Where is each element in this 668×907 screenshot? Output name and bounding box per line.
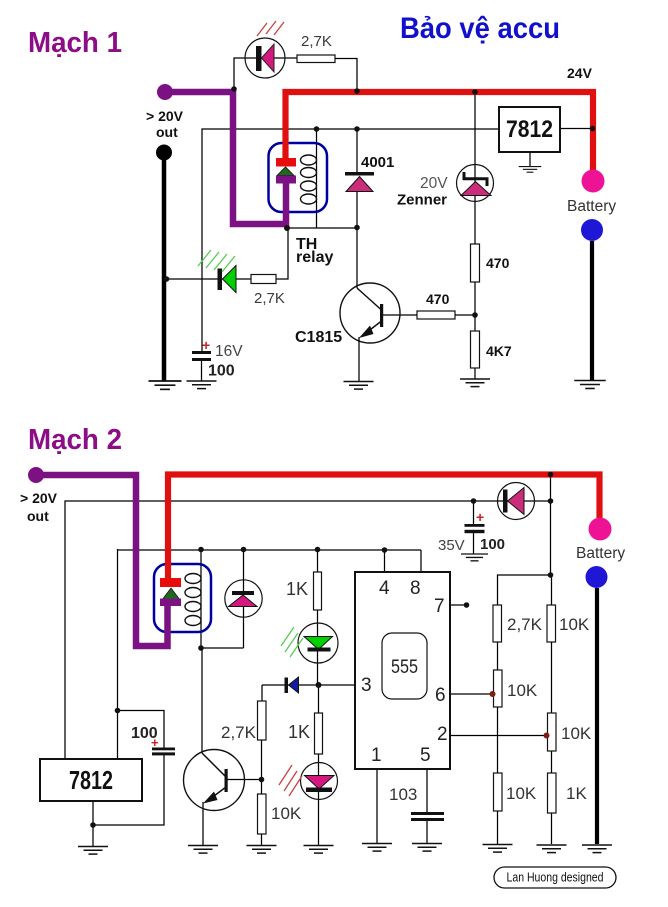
regulator U2 7812 <box>40 759 142 801</box>
capacitor C3 35V plates <box>465 524 485 527</box>
resistor R7 2,7K <box>258 701 267 740</box>
wire: 7812 U1 output to battery wire <box>560 128 592 130</box>
svg-text:Battery: Battery <box>576 545 625 562</box>
wire: C3 35V branch <box>473 501 475 554</box>
wire: down to Q2 collector <box>201 648 203 753</box>
diode D7 bar <box>503 490 508 513</box>
wire: contact-common net y=228 (relay output to coil bottom and 4001/collector) <box>287 227 357 229</box>
svg-text:100: 100 <box>480 536 505 553</box>
svg-text:7812: 7812 <box>69 765 113 795</box>
wire: 1K / green LED column x=317.5 <box>317 550 319 685</box>
svg-text:1: 1 <box>371 745 382 766</box>
wire: LED D5 column x=243.5 <box>243 550 245 648</box>
resistor 10K left mid <box>494 670 503 707</box>
wire: zener/divider column x=475 <box>474 92 476 244</box>
wire: divider right column x=551.5 <box>551 642 553 844</box>
wire: 555 pin4 and pin8 feeds <box>385 550 422 572</box>
wire: 1K mid / pink LED column x=319 <box>318 685 320 845</box>
diode D6 (blue) triangle <box>289 677 299 693</box>
transistor Q1 collector stroke <box>357 288 382 310</box>
wire: battery negative lead <box>590 241 594 380</box>
node: battery plus terminal (pink) <box>589 518 612 541</box>
wire: Q1 emitter to ground <box>358 337 360 381</box>
relay K2 contact (red) <box>160 578 181 587</box>
svg-text:Mạch 2: Mạch 2 <box>28 424 122 456</box>
resistor 1K mid <box>315 713 323 754</box>
wire: R1 right side drop to +24V red rail <box>335 59 357 91</box>
diode D3 4001 bar <box>345 172 374 176</box>
svg-text:2,7K: 2,7K <box>301 33 332 50</box>
svg-text:5: 5 <box>420 745 431 766</box>
svg-text:Bảo vệ accu: Bảo vệ accu <box>400 12 560 45</box>
transistor Q1 emitter stroke with arrow <box>362 321 382 336</box>
ground: R8 <box>247 846 277 854</box>
resistor 10K right mid <box>548 713 557 751</box>
diode D7 triangle <box>508 488 525 515</box>
capacitor C4 103 plates <box>411 812 444 815</box>
LED D1 light rays (red) <box>257 21 284 36</box>
LED D5 circle (at relay) <box>225 580 262 617</box>
svg-text:2,7K: 2,7K <box>221 723 257 742</box>
transistor Q1 C1815 circle <box>340 283 400 343</box>
wire: R2 right to relay contact junction <box>276 228 288 279</box>
svg-text:4: 4 <box>379 578 390 599</box>
node: pin6 tap (maroon) <box>490 691 496 697</box>
svg-text:3: 3 <box>361 675 372 696</box>
ground: divider right <box>537 845 567 853</box>
LED D2 (green) triangle <box>223 266 237 293</box>
transistor Q1 base bar <box>380 304 383 327</box>
node: battery-minus sense terminal (black) <box>156 145 172 161</box>
LED D8 bar <box>308 648 331 652</box>
ground: divider left <box>483 845 513 853</box>
relay K2 contact (purple) <box>160 599 181 607</box>
svg-text:7812: 7812 <box>506 116 553 143</box>
svg-text:20V: 20V <box>420 175 448 192</box>
wire: divider left column x=497.5 <box>497 642 499 844</box>
wire: 4001 diode branch x=357 <box>356 129 358 228</box>
svg-text:103: 103 <box>389 785 417 804</box>
wire: 555 pin6 to divider left column <box>450 693 492 695</box>
svg-text:+: + <box>151 735 159 750</box>
resistor R3 470 horizontal <box>417 311 455 319</box>
ground: Q2 emitter <box>188 846 218 854</box>
wire: 555 pin5 to C4 103 <box>426 769 428 843</box>
svg-text:out: out <box>156 124 178 140</box>
svg-text:Mạch 1: Mạch 1 <box>28 27 122 59</box>
wire: purple contact feed from >20V out <box>165 92 286 224</box>
relay K1 coil <box>301 155 317 204</box>
ground: 555 pin1 <box>362 844 392 852</box>
svg-text:7: 7 <box>434 596 445 617</box>
IC U3 inner label box <box>382 633 427 699</box>
node: battery plus terminal (pink) <box>582 170 605 193</box>
svg-text:1K: 1K <box>288 722 310 742</box>
relay K1 contact (red) <box>276 158 296 167</box>
node: battery minus terminal (blue) <box>581 219 603 241</box>
wire: purple contact feed from >20V out <box>40 475 168 646</box>
relay K1 case <box>269 143 328 212</box>
svg-text:35V: 35V <box>438 537 465 554</box>
svg-text:C1815: C1815 <box>295 329 342 346</box>
resistor R5 4K7 <box>471 331 480 368</box>
LED D5 triangle <box>229 595 258 607</box>
junction dots circuit1 <box>164 86 596 318</box>
svg-text:2,7K: 2,7K <box>254 290 285 307</box>
LED D2 (green) cathode bar <box>218 269 223 291</box>
LED D1 triangle <box>262 44 275 72</box>
ground: battery negative <box>574 381 606 389</box>
wire: Q2 base row <box>227 779 262 781</box>
wire: coil bottom to LED bottom y=648 <box>201 647 244 649</box>
wire: battery tap x=550.5 from red rail to divider rail <box>550 474 552 575</box>
resistor 2,7K divider <box>493 605 502 642</box>
wire: LED D1 anode row y=58 and drop to purple node <box>234 58 297 89</box>
ground: U1 7812 <box>519 167 542 173</box>
svg-text:10K: 10K <box>559 615 590 634</box>
transistor Q2 collector stroke <box>202 753 226 777</box>
zener DZ triangle <box>461 182 491 196</box>
svg-text:1K: 1K <box>286 579 308 599</box>
wire: C1 to ground <box>201 361 203 381</box>
regulator U1 7812 <box>499 107 560 152</box>
ground: U2 7812 <box>78 847 108 855</box>
ground: >20V out lead <box>149 381 182 389</box>
wire: +24V thin rail y=129 from cap corner to 7812 input <box>202 129 499 351</box>
node: >20V out terminal (purple) <box>157 84 173 100</box>
resistor 1K right bottom <box>548 773 557 813</box>
capacitor C2 plates <box>152 748 175 751</box>
ground: battery negative <box>582 845 612 853</box>
svg-text:24V: 24V <box>567 65 593 81</box>
LED D2 light rays (green) <box>198 250 235 272</box>
svg-text:2,7K: 2,7K <box>507 615 543 634</box>
LED D9 pink circle <box>301 763 338 800</box>
LED D5 bar <box>232 591 254 595</box>
node: >20V out terminal (purple) <box>28 467 44 483</box>
relay K2 coil <box>185 574 201 626</box>
wire: relay K1 coil line x=316.5 <box>316 129 318 228</box>
node: battery minus terminal (blue) <box>586 566 608 588</box>
wire: base column R7-R8 <box>261 740 263 845</box>
LED D1 cathode bar <box>256 46 262 71</box>
node: pin2 tap (maroon) <box>544 733 550 739</box>
wire: battery feed to 7812 input (frame via diode) y=501 <box>65 501 551 759</box>
ground: C4 103 <box>412 844 442 852</box>
relay K2 contact arrow (green) <box>162 588 180 600</box>
resistor 1K top <box>314 572 322 610</box>
svg-text:> 20V: > 20V <box>146 108 184 124</box>
svg-text:10K: 10K <box>507 681 538 700</box>
LED D8 triangle <box>304 637 333 650</box>
wire: collector drop to Q1 <box>356 228 358 289</box>
wire: divider 470-4K7 column <box>474 282 476 379</box>
wire: 555 pin2 to divider right column <box>450 735 547 737</box>
svg-text:10K: 10K <box>506 784 537 803</box>
svg-text:4K7: 4K7 <box>486 343 512 359</box>
resistor 10K left bottom <box>494 773 503 811</box>
transistor Q2 emitter stroke with arrow <box>206 787 226 802</box>
svg-text:> 20V: > 20V <box>20 490 58 506</box>
wire: 7812 U2 output column x=117.5 <box>117 549 119 759</box>
ground: C3 <box>461 554 488 561</box>
transistor Q2 base bar <box>225 769 228 792</box>
wire: >20V out lead (thick black) <box>162 158 167 381</box>
svg-text:Lan Huong designed: Lan Huong designed <box>507 871 604 885</box>
svg-text:4001: 4001 <box>361 154 394 171</box>
LED D9 triangle <box>305 776 335 790</box>
ground: LED D9 <box>304 846 334 854</box>
svg-text:10K: 10K <box>271 804 302 823</box>
svg-text:out: out <box>27 508 49 524</box>
wire: 555 pin7 stub <box>450 604 466 606</box>
svg-text:+: + <box>202 337 210 353</box>
LED D1 (red indicator) circle <box>245 38 285 78</box>
LED D9 light rays (red) <box>279 765 302 796</box>
ground: 4K7 <box>460 379 490 387</box>
relay K1 contact (purple) <box>276 176 296 184</box>
wire: 555 pin3 row y=685 <box>262 684 355 686</box>
LED D8 light rays (green) <box>281 627 303 657</box>
wire: divider top rail <box>498 575 552 605</box>
svg-text:555: 555 <box>391 657 418 678</box>
svg-text:470: 470 <box>486 255 510 271</box>
LED D8 green circle <box>298 623 338 663</box>
resistor R8 10K <box>258 794 267 834</box>
wire: +24V thick red wire to battery <box>168 475 600 580</box>
zener DZ bar with hooks <box>464 172 487 186</box>
svg-text:16V: 16V <box>215 343 243 360</box>
svg-text:100: 100 <box>208 363 235 380</box>
relay K1 contact arrow (green) <box>277 167 294 176</box>
zener DZ 20V circle <box>457 165 494 202</box>
resistor R1 2,7K <box>297 55 335 63</box>
transistor Q2 circle <box>184 750 245 811</box>
wire: relay K2 coil column x=201 <box>200 550 202 648</box>
svg-text:470: 470 <box>426 291 450 307</box>
capacitor C1 plates <box>192 351 211 354</box>
signature pill <box>494 867 616 888</box>
svg-text:10K: 10K <box>561 724 592 743</box>
svg-text:Zenner: Zenner <box>397 192 447 209</box>
svg-text:+: + <box>476 509 484 525</box>
resistor R4 470 vertical <box>471 244 480 282</box>
relay K2 case <box>154 564 211 632</box>
svg-text:2: 2 <box>437 724 448 745</box>
wire: +12V rail y=550 <box>118 549 422 551</box>
diode D3 4001 triangle <box>346 177 373 192</box>
wire: LED D2 row y=279 from battery line to R2 <box>164 278 251 280</box>
wire: Q1 base to R3 to divider node <box>383 314 475 316</box>
wire: branch to C2 100uF <box>118 711 165 748</box>
wire: battery negative lead <box>595 588 599 844</box>
LED D9 bar <box>306 788 332 793</box>
wire: C2 negative to ground pin of U2 <box>93 755 164 846</box>
svg-text:6: 6 <box>435 685 446 706</box>
junction dots circuit2 <box>90 472 553 828</box>
wire: 555 pin1 to ground <box>376 769 378 843</box>
ground: Q1 emitter <box>344 382 374 390</box>
resistor R2 2,7K <box>251 275 276 284</box>
wire: Q2 emitter to ground <box>202 802 204 845</box>
wire: +24V thick red wire to battery <box>286 92 594 171</box>
svg-text:relay: relay <box>296 249 333 266</box>
ground: C1 <box>187 381 217 389</box>
svg-text:1K: 1K <box>566 784 587 803</box>
diode D6 (blue) bar <box>285 678 289 694</box>
resistor 10K right top <box>547 605 556 642</box>
svg-text:8: 8 <box>410 578 421 599</box>
diode D7 circle (battery feed) <box>498 483 535 520</box>
IC U3 555 case <box>355 572 450 769</box>
svg-text:Battery: Battery <box>567 198 616 215</box>
wire: 7812 U1 ground pin <box>529 152 531 166</box>
wire: diode D6 to R7 2,7K top <box>261 685 263 701</box>
